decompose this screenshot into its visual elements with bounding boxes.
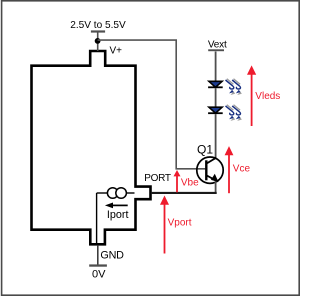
wire LED1 to LED2 xyxy=(215,88,217,107)
LED D1 emission arrows xyxy=(226,79,242,95)
wire LED2 to Q1 collector xyxy=(215,114,217,158)
svg-text:PORT: PORT xyxy=(144,173,171,184)
svg-text:Vbe: Vbe xyxy=(181,177,199,188)
svg-text:Vleds: Vleds xyxy=(255,91,280,102)
wire node to Q1 base xyxy=(98,40,206,169)
red arrow Vport xyxy=(160,196,192,254)
svg-text:V+: V+ xyxy=(110,46,123,57)
current source Iport xyxy=(97,188,135,243)
Iport arrow xyxy=(112,204,128,206)
wire bar to node xyxy=(97,32,99,51)
svg-text:Q1: Q1 xyxy=(197,143,213,157)
node junction dot xyxy=(95,38,101,44)
svg-text:Vce: Vce xyxy=(233,164,251,175)
red arrow Vce xyxy=(225,146,251,193)
svg-text:GND: GND xyxy=(100,249,124,261)
Vext terminal bar xyxy=(208,49,224,51)
LED D2 xyxy=(208,107,223,114)
wire Vext to LED1 xyxy=(215,52,217,82)
red arrow Vbe xyxy=(174,170,200,192)
red arrow Vleds xyxy=(247,65,280,126)
svg-text:2.5V to 5.5V: 2.5V to 5.5V xyxy=(70,20,126,31)
LED D1 xyxy=(208,81,223,88)
svg-text:0V: 0V xyxy=(92,268,106,280)
ground 0V bar xyxy=(89,264,107,266)
supply terminal bar xyxy=(91,30,105,32)
svg-text:Vext: Vext xyxy=(208,40,227,51)
transistor Q1 xyxy=(197,143,223,184)
wire Q1 emitter down xyxy=(215,182,217,193)
svg-text:Iport: Iport xyxy=(107,209,129,221)
svg-text:Vport: Vport xyxy=(168,218,192,229)
LED D2 emission arrows xyxy=(226,105,242,121)
wire PORT to emitter xyxy=(151,192,217,194)
IC outline U-MCU xyxy=(32,51,151,244)
ground stem xyxy=(97,245,99,265)
